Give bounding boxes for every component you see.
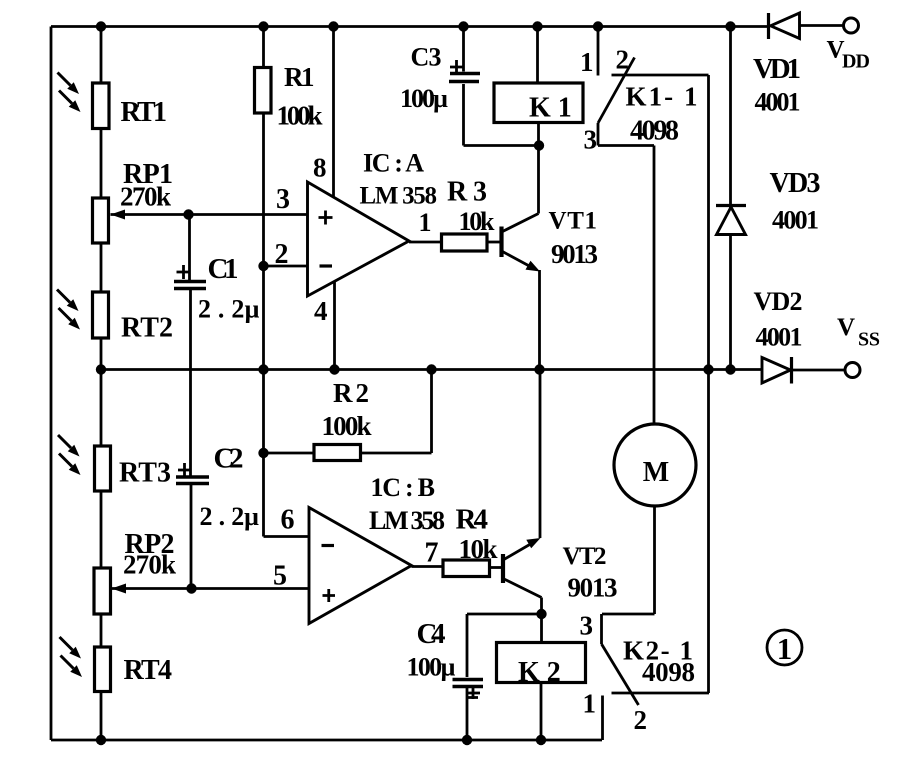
- diode VD3: [716, 206, 746, 235]
- svg-text:100k: 100k: [277, 101, 323, 131]
- wire op-amp A pin 3: [111, 213, 308, 216]
- terminal VSS circle: [845, 363, 860, 378]
- light arrows RT3: [58, 435, 81, 475]
- wire VT1 base: [487, 241, 501, 244]
- op-amp U1A plus input symbol: [319, 211, 333, 225]
- svg-text:VD1: VD1: [753, 53, 801, 85]
- wire K1-1 arm: [598, 58, 635, 124]
- svg-text:VD3: VD3: [770, 168, 821, 199]
- capacitor C3: [449, 60, 480, 82]
- wire op-amp B pin 6: [264, 535, 310, 538]
- wire RT chain segments: [100, 27, 103, 741]
- op-amp U1B minus input symbol: [322, 544, 335, 547]
- svg-text:SS: SS: [858, 329, 880, 351]
- relay coil K1: [494, 83, 583, 123]
- svg-text:2 . 2µ: 2 . 2µ: [200, 502, 260, 531]
- svg-text:10k: 10k: [459, 534, 498, 564]
- svg-text:R 3: R 3: [447, 177, 487, 208]
- svg-text:270k: 270k: [123, 550, 176, 580]
- op-amp U1B triangle: [309, 508, 412, 624]
- svg-text:R 1: R 1: [284, 62, 315, 92]
- wire VT2 collector to K2: [503, 579, 542, 643]
- svg-text:8: 8: [313, 153, 327, 183]
- wire op-amp A pin 2: [264, 265, 308, 268]
- svg-text:4098: 4098: [642, 657, 695, 687]
- wire R2 left and right: [264, 370, 432, 454]
- svg-text:1C : B: 1C : B: [371, 473, 436, 502]
- RP2 wiper arrow: [112, 584, 127, 594]
- svg-text:RT1: RT1: [121, 97, 168, 128]
- svg-text:10k: 10k: [459, 207, 496, 236]
- svg-text:DD: DD: [842, 51, 870, 73]
- svg-text:LM 358: LM 358: [369, 506, 445, 535]
- wire top rail: [51, 25, 769, 28]
- svg-text:VT2: VT2: [563, 543, 607, 570]
- wire motor bottom: [602, 506, 655, 614]
- relay coil K2: [497, 643, 586, 683]
- wire C4 branch: [467, 614, 542, 740]
- svg-text:1: 1: [580, 47, 594, 77]
- wire K2-1 pin 1: [601, 696, 604, 741]
- wire K1-1 pin 2: [612, 74, 709, 77]
- wire K1-1 pin 1: [597, 27, 600, 76]
- svg-text:VT1: VT1: [549, 208, 598, 235]
- svg-text:2: 2: [616, 45, 630, 75]
- resistor R1: [255, 68, 272, 114]
- svg-text:2: 2: [275, 239, 289, 270]
- photoresistor RT4: [95, 647, 111, 692]
- svg-text:2 . 2µ: 2 . 2µ: [198, 295, 260, 324]
- transistor VT2 emitter arrowhead: [526, 538, 540, 548]
- light arrows RT2: [57, 290, 80, 330]
- svg-text:C1: C1: [208, 253, 239, 285]
- wire motor top: [653, 146, 656, 425]
- svg-text:3: 3: [584, 125, 598, 155]
- wire K2 bottom: [540, 683, 543, 741]
- svg-text:1: 1: [583, 689, 597, 719]
- svg-text:2: 2: [634, 705, 648, 735]
- wire VT2 emitter to rail: [503, 370, 540, 561]
- wire VD3 branch: [729, 27, 732, 370]
- svg-text:R 4: R 4: [456, 504, 489, 536]
- svg-text:100µ: 100µ: [400, 84, 448, 113]
- svg-text:K 1: K 1: [529, 93, 572, 124]
- wire C1 stem and C1-C2 link and C2 stem: [190, 215, 192, 589]
- svg-text:LM 358: LM 358: [360, 183, 438, 210]
- op-amp U1A triangle: [308, 182, 410, 296]
- figure number circled 1: [767, 630, 802, 666]
- transistor VT1 base bar: [499, 227, 503, 258]
- wire K1-1 pin 3: [598, 123, 654, 146]
- wire op-amp A output to R3: [409, 241, 442, 244]
- svg-text:100µ: 100µ: [407, 653, 456, 682]
- terminal label VSS: [837, 314, 880, 351]
- svg-text:4001: 4001: [772, 206, 819, 235]
- svg-text:C3: C3: [411, 43, 442, 72]
- wire K2-1 arm: [602, 644, 639, 705]
- svg-text:9013: 9013: [551, 239, 598, 269]
- terminal label VDD: [827, 37, 871, 73]
- RP1 wiper arrow: [111, 210, 126, 220]
- light arrows RT4: [60, 637, 83, 677]
- svg-text:4: 4: [314, 296, 328, 326]
- svg-text:C2: C2: [214, 443, 244, 475]
- wire right tall line pin2 K1-1 to pin2 K2-1: [707, 75, 710, 693]
- photoresistor RT3: [95, 446, 111, 491]
- svg-text:3: 3: [276, 184, 290, 215]
- op-amp U1B plus input symbol: [323, 589, 336, 602]
- wire top rail right of VD1: [800, 24, 844, 27]
- wire R1 vertical line: [262, 27, 265, 537]
- photoresistor RT2: [93, 292, 109, 338]
- svg-text:RT2: RT2: [121, 313, 173, 344]
- diode VD1: [769, 13, 800, 39]
- svg-text:3: 3: [580, 611, 594, 641]
- wire VT1 emitter to rail: [502, 251, 540, 370]
- svg-text:270k: 270k: [120, 182, 171, 212]
- light arrows RT1: [58, 73, 81, 113]
- motor M circle: [614, 424, 696, 506]
- terminal VDD circle: [844, 18, 859, 33]
- wire C3 stem: [464, 27, 540, 146]
- svg-text:4001: 4001: [756, 323, 803, 352]
- wire K2-1 pin 2: [612, 692, 710, 695]
- wire op-amp B output to R4: [412, 565, 444, 568]
- svg-text:7: 7: [425, 538, 439, 569]
- wire K1 coil top: [536, 27, 539, 84]
- capacitor C4: [453, 680, 484, 700]
- svg-text:4098: 4098: [630, 116, 679, 147]
- wire op-amp A pin 4: [333, 281, 336, 370]
- svg-text:6: 6: [281, 505, 295, 536]
- wire VT1 collector to K1: [502, 123, 539, 233]
- potentiometer RP1: [93, 198, 109, 243]
- svg-text:100k: 100k: [322, 411, 372, 441]
- svg-text:RT3: RT3: [119, 458, 171, 489]
- resistor R3: [442, 234, 488, 251]
- svg-text:RT4: RT4: [124, 655, 173, 686]
- transistor VT2 base bar: [501, 554, 505, 583]
- capacitor C2: [176, 463, 209, 484]
- svg-text:V: V: [837, 314, 855, 341]
- transistor VT1 emitter arrowhead: [526, 261, 541, 272]
- svg-text:1: 1: [419, 208, 432, 237]
- op-amp U1A minus input symbol: [320, 264, 333, 267]
- svg-text:9013: 9013: [568, 573, 618, 603]
- svg-text:M: M: [643, 457, 669, 488]
- svg-text:1: 1: [777, 631, 793, 666]
- wire VT2 base: [490, 566, 503, 569]
- resistor R2: [314, 445, 361, 461]
- wire left frame: [50, 27, 53, 741]
- svg-text:R 2: R 2: [333, 378, 369, 408]
- svg-text:4001: 4001: [755, 88, 801, 117]
- wire VSS rail right of VD2: [792, 369, 846, 372]
- svg-text:K1- 1: K1- 1: [626, 82, 698, 112]
- capacitor C1: [174, 265, 206, 289]
- svg-text:K 2: K 2: [518, 657, 561, 688]
- svg-text:IC : A: IC : A: [363, 149, 424, 178]
- potentiometer RP2: [94, 568, 111, 614]
- svg-text:5: 5: [273, 561, 287, 592]
- wire VSS mid rail: [101, 368, 762, 371]
- wire bottom rail: [51, 739, 602, 742]
- svg-text:VD2: VD2: [754, 287, 803, 316]
- wire op-amp B pin 5: [112, 587, 310, 590]
- resistor R4: [443, 560, 490, 577]
- photoresistor RT1: [93, 83, 110, 129]
- svg-text:C4: C4: [417, 618, 446, 650]
- wire K2-1 pin 3 contact: [600, 614, 603, 644]
- wire op-amp A pin 8: [332, 27, 335, 198]
- diode VD2: [762, 357, 792, 384]
